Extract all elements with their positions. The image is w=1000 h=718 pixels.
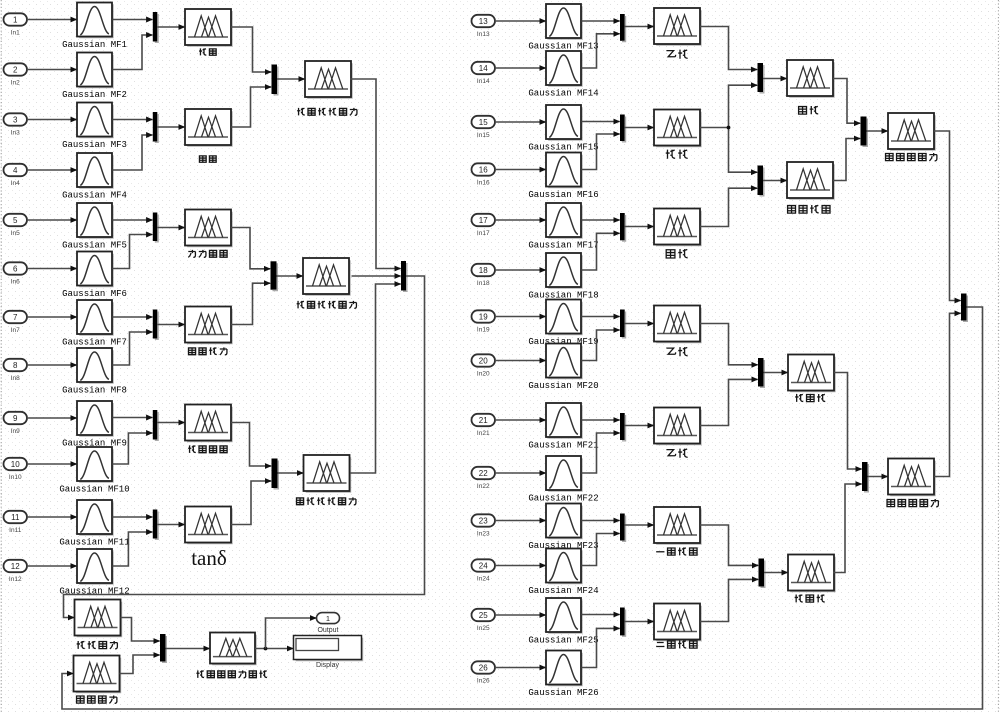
wire mux to fuzzy block 甲烷 <box>625 226 654 228</box>
label 水分含量 <box>188 250 195 257</box>
mux for pair 25/26 <box>620 608 625 636</box>
wire In21 to Gaussian MF21 <box>495 419 546 421</box>
svg-text:Gaussian MF11: Gaussian MF11 <box>59 537 129 547</box>
svg-text:10: 10 <box>11 460 20 469</box>
input port In22 <box>472 467 496 479</box>
wire mux to fuzzy block <box>157 26 184 28</box>
wire Gaussian MF17 to mux <box>581 219 619 221</box>
svg-text:25: 25 <box>479 611 488 620</box>
mux fault stresses <box>961 294 967 321</box>
label 界面张力 <box>188 348 195 355</box>
wire mux to 电弧 <box>763 78 787 80</box>
wire mux to fuzzy block 乙烷 <box>625 425 654 427</box>
Gaussian MF10 block <box>79 449 113 482</box>
svg-text:In5: In5 <box>11 230 20 237</box>
fuzzy block 乙烷 <box>656 410 701 445</box>
wire mux to 电气老化应力 <box>278 472 304 474</box>
label 呋喃 <box>199 48 206 55</box>
mux chemical <box>272 65 278 95</box>
wire 甲烷 to pd mux <box>700 188 757 226</box>
input port In7 <box>4 311 28 323</box>
label 过热油 <box>795 394 803 402</box>
wire Gaussian MF19 to mux <box>581 316 619 318</box>
fuzzy block 氢气 <box>656 112 701 147</box>
fuzzy block 过热油 <box>790 357 835 392</box>
wire In6 to Gaussian MF6 <box>27 268 77 270</box>
Gaussian MF8 block <box>79 350 113 383</box>
fuzzy block 一氧化碳 <box>656 509 701 544</box>
wire Gaussian MF6 to mux <box>112 235 152 269</box>
svg-text:In21: In21 <box>477 430 490 437</box>
output port Output <box>317 613 340 624</box>
svg-text:Gaussian MF14: Gaussian MF14 <box>528 88 598 98</box>
wire mux to 化学老化应力 <box>277 78 305 80</box>
wire aging mux to 老化应力 <box>64 276 425 618</box>
wire In2 to Gaussian MF2 <box>27 69 77 71</box>
input port In24 <box>472 559 496 571</box>
svg-text:In23: In23 <box>477 530 490 537</box>
label 一氧化碳 <box>656 551 664 553</box>
svg-text:Gaussian MF3: Gaussian MF3 <box>62 140 127 150</box>
label 甲烷 <box>666 250 675 258</box>
fuzzy block 水分含量 <box>187 212 232 247</box>
svg-text:Gaussian MF1: Gaussian MF1 <box>62 40 127 50</box>
label 电气老化应力 <box>296 498 303 505</box>
fuzzy block 老化应力 <box>77 602 122 637</box>
wire In11 to Gaussian MF11 <box>27 516 77 518</box>
mux partial discharge <box>758 166 764 196</box>
label 乙炔 <box>666 51 675 57</box>
svg-text:1: 1 <box>326 614 330 623</box>
input port In17 <box>472 214 496 226</box>
label 二氧化碳 <box>656 643 664 647</box>
svg-text:Gaussian MF16: Gaussian MF16 <box>528 190 598 200</box>
mux electrical <box>272 459 278 489</box>
svg-text:Gaussian MF26: Gaussian MF26 <box>528 688 598 698</box>
label 介电强度 <box>188 445 196 452</box>
fuzzy block 局部放电 <box>789 164 834 199</box>
wire mux to 局部放电 <box>763 180 787 182</box>
wire mux to fuzzy block <box>157 227 184 229</box>
svg-text:17: 17 <box>479 216 488 225</box>
label 过热纸 <box>795 594 803 602</box>
Gaussian MF16 block <box>548 155 582 188</box>
svg-text:7: 7 <box>13 313 18 322</box>
input port In14 <box>472 62 496 74</box>
wire In22 to Gaussian MF22 <box>495 472 546 474</box>
svg-text:26: 26 <box>479 663 488 672</box>
svg-text:In17: In17 <box>477 230 490 237</box>
svg-text:15: 15 <box>479 118 488 127</box>
wire 电气老化应力 to aging mux <box>350 284 401 473</box>
svg-text:In1: In1 <box>11 29 20 36</box>
wire In15 to Gaussian MF15 <box>495 121 546 123</box>
mux for pair 21/22 <box>620 413 625 440</box>
mux arc <box>758 63 764 92</box>
wire Gaussian MF1 to mux <box>112 19 152 21</box>
input port In21 <box>472 414 496 426</box>
fuzzy block 电气老化应力 <box>306 457 351 492</box>
svg-text:Gaussian MF24: Gaussian MF24 <box>528 586 598 596</box>
mux for pair 15/16 <box>620 115 625 142</box>
wire 乙烷 to oil mux <box>700 379 758 425</box>
svg-text:22: 22 <box>479 469 488 478</box>
Display block <box>296 638 363 661</box>
wire mux to 物理老化应力 <box>277 275 303 277</box>
wire In19 to Gaussian MF19 <box>495 316 546 318</box>
mux for pair 5/6 <box>153 213 158 242</box>
wire Gaussian MF14 to mux <box>581 34 619 68</box>
svg-text:In14: In14 <box>477 78 490 85</box>
Gaussian MF3 block <box>79 105 113 138</box>
wire mux to 过热油 <box>764 372 788 374</box>
wire 界面张力 to phys mux <box>231 283 270 324</box>
svg-text:Output: Output <box>317 627 338 634</box>
svg-text:12: 12 <box>11 562 20 571</box>
svg-text:In12: In12 <box>9 576 22 583</box>
wire mux to fuzzy block <box>157 422 184 424</box>
wire 热故障应力 to fault mux <box>934 131 961 301</box>
svg-text:tanδ: tanδ <box>191 546 227 570</box>
wire mux to fuzzy block <box>157 324 184 326</box>
input port In4 <box>4 164 28 176</box>
junction dot <box>264 647 268 651</box>
wire In23 to Gaussian MF23 <box>495 520 546 522</box>
wire In13 to Gaussian MF13 <box>495 20 546 22</box>
svg-text:In2: In2 <box>11 79 20 86</box>
wire In14 to Gaussian MF14 <box>495 67 546 69</box>
wire 故障应力 to final mux <box>120 655 160 674</box>
wire mux to fuzzy block <box>157 524 184 526</box>
wire Gaussian MF11 to mux <box>112 516 152 518</box>
svg-text:In13: In13 <box>477 31 490 38</box>
Gaussian MF24 block <box>548 551 582 584</box>
svg-text:23: 23 <box>479 516 488 525</box>
wire 物理老化应力 to aging mux <box>352 275 401 277</box>
fuzzy block 甲烷 <box>656 211 701 246</box>
input port In19 <box>472 310 496 322</box>
mux for pair 19/20 <box>620 310 625 338</box>
Gaussian MF1 block <box>79 5 113 38</box>
Gaussian MF9 block <box>79 403 113 436</box>
fuzzy block 物理老化应力 <box>305 260 350 295</box>
svg-text:3: 3 <box>13 115 18 124</box>
fuzzy block 过热纸 <box>790 557 835 592</box>
svg-text:8: 8 <box>13 361 18 370</box>
wire 老化应力 to final mux <box>121 618 160 642</box>
svg-text:Gaussian MF7: Gaussian MF7 <box>62 337 127 347</box>
Gaussian MF7 block <box>79 302 113 335</box>
wire In7 to Gaussian MF7 <box>27 316 77 318</box>
wire In4 to Gaussian MF4 <box>27 169 77 171</box>
wire mux to fuzzy block 乙烯 <box>625 323 654 325</box>
wire Gaussian MF8 to mux <box>112 332 152 365</box>
svg-text:In6: In6 <box>11 278 20 285</box>
svg-text:In3: In3 <box>11 129 20 136</box>
wire mux to fuzzy block 一氧化碳 <box>625 524 654 526</box>
label 热故障应力 <box>886 154 894 161</box>
svg-text:Gaussian MF2: Gaussian MF2 <box>62 90 127 100</box>
mux aging stresses <box>401 261 406 291</box>
wire 变压器应力等级 to Display <box>255 648 293 650</box>
label 物理老化应力 <box>297 301 305 308</box>
wire In1 to Gaussian MF1 <box>27 19 77 21</box>
Gaussian MF26 block <box>548 653 582 686</box>
mux for pair 7/8 <box>153 310 158 339</box>
figure border left <box>0 0 2 713</box>
fuzzy block tan-delta <box>187 509 232 544</box>
wire Gaussian MF23 to mux <box>581 520 619 522</box>
wire Gaussian MF20 to mux <box>581 330 619 361</box>
wire mux to fuzzy block 氢气 <box>625 127 654 129</box>
figure border right <box>997 0 999 713</box>
fuzzy block 化学老化应力 <box>307 63 352 98</box>
mux for pair 23/24 <box>620 514 625 541</box>
svg-text:Gaussian MF13: Gaussian MF13 <box>528 41 598 51</box>
Gaussian MF15 block <box>548 107 582 140</box>
wire mux to fuzzy block <box>157 126 184 128</box>
svg-text:In19: In19 <box>477 326 490 333</box>
wire Gaussian MF5 to mux <box>112 219 152 221</box>
Gaussian MF5 block <box>79 205 113 238</box>
fuzzy block 电弧 <box>789 62 834 97</box>
wire Gaussian MF7 to mux <box>112 316 152 318</box>
svg-text:5: 5 <box>13 216 18 225</box>
wire Gaussian MF9 to mux <box>112 417 152 419</box>
label 局部放电 <box>788 206 796 214</box>
label 老化应力 <box>77 641 85 649</box>
svg-text:4: 4 <box>13 166 18 175</box>
wire 过热纸 to electric-fault mux <box>834 484 862 573</box>
wire 二氧化碳 to paper mux <box>700 579 758 621</box>
Gaussian MF11 block <box>79 502 113 535</box>
Gaussian MF12 block <box>79 551 113 584</box>
svg-text:In4: In4 <box>11 180 20 187</box>
Gaussian MF13 block <box>548 6 582 39</box>
Gaussian MF17 block <box>548 205 582 238</box>
wire 局部放电 to thermal mux <box>833 139 860 181</box>
input port In23 <box>472 514 496 526</box>
fuzzy block 故障应力 <box>76 658 121 693</box>
mux for pair 1/2 <box>153 12 158 42</box>
wire In3 to Gaussian MF3 <box>27 119 77 121</box>
wire 电故障应力 to fault mux <box>934 313 961 476</box>
mux physical <box>271 261 277 289</box>
input port In13 <box>472 15 496 27</box>
Gaussian MF20 block <box>548 346 582 379</box>
wire Gaussian MF22 to mux <box>581 433 619 473</box>
wire Gaussian MF3 to mux <box>112 119 152 121</box>
mux for pair 13/14 <box>620 14 625 41</box>
svg-text:In25: In25 <box>477 625 490 632</box>
Gaussian MF22 block <box>548 458 582 491</box>
mux for pair 3/4 <box>153 112 158 142</box>
label 电故障应力 <box>887 500 895 507</box>
input port In26 <box>472 661 496 673</box>
fuzzy block 电故障应力 <box>890 461 935 496</box>
svg-text:9: 9 <box>13 414 18 423</box>
svg-text:Gaussian MF20: Gaussian MF20 <box>528 381 598 391</box>
input port In16 <box>472 163 496 175</box>
svg-text:In20: In20 <box>477 370 490 377</box>
input port In18 <box>472 264 496 276</box>
junction dot 氢气 <box>727 126 731 130</box>
mux electric fault <box>862 462 868 491</box>
Gaussian MF21 block <box>548 405 582 438</box>
Gaussian MF19 block <box>548 302 582 335</box>
wire tan-delta to elec mux <box>231 481 271 525</box>
input port In1 <box>4 13 28 25</box>
svg-text:1: 1 <box>13 15 18 24</box>
wire mux to fuzzy block 二氧化碳 <box>625 621 654 623</box>
label 电弧 <box>799 107 807 115</box>
wire Gaussian MF2 to mux <box>112 35 152 70</box>
input port In5 <box>4 214 28 226</box>
svg-text:13: 13 <box>479 17 488 26</box>
wire 水分含量 to phys mux <box>231 228 270 269</box>
input port In3 <box>4 113 28 125</box>
wire Gaussian MF10 to mux <box>112 433 152 464</box>
input port In25 <box>472 609 496 621</box>
wire In8 to Gaussian MF8 <box>27 364 77 366</box>
svg-text:Gaussian MF22: Gaussian MF22 <box>528 493 598 503</box>
label 故障应力 <box>77 696 85 703</box>
Gaussian MF4 block <box>79 155 113 188</box>
input port In20 <box>472 354 496 366</box>
svg-text:18: 18 <box>479 266 488 275</box>
input port In9 <box>4 412 28 424</box>
wire In17 to Gaussian MF17 <box>495 219 546 221</box>
wire In18 to Gaussian MF18 <box>495 269 546 271</box>
Gaussian MF6 block <box>79 254 113 287</box>
wire Gaussian MF26 to mux <box>581 628 619 667</box>
wire 氢气 to arc mux and pd mux <box>700 85 757 127</box>
Gaussian MF23 block <box>548 506 582 539</box>
wire mux to 过热纸 <box>764 572 788 574</box>
wire 乙烯 to oil mux <box>700 324 758 365</box>
svg-text:Gaussian MF25: Gaussian MF25 <box>528 635 598 645</box>
fuzzy block 乙烯 <box>656 308 701 343</box>
mux final <box>160 634 166 662</box>
svg-text:Gaussian MF15: Gaussian MF15 <box>528 142 598 152</box>
svg-text:Gaussian MF8: Gaussian MF8 <box>62 385 127 395</box>
input port In12 <box>4 560 28 572</box>
wire 电弧 to thermal mux <box>833 79 860 124</box>
wire In24 to Gaussian MF24 <box>495 565 546 567</box>
svg-text:Gaussian MF21: Gaussian MF21 <box>528 440 598 450</box>
wire mux to 热故障应力 <box>867 130 888 132</box>
label 变压器应力等级 <box>196 670 204 677</box>
wire In9 to Gaussian MF9 <box>27 417 77 419</box>
svg-text:19: 19 <box>479 312 488 321</box>
wire 一氧化碳 to paper mux <box>700 525 758 565</box>
wire 乙炔 to arc mux <box>700 27 757 70</box>
wire Gaussian MF25 to mux <box>581 614 619 616</box>
input port In8 <box>4 359 28 371</box>
wire mux to 电故障应力 <box>868 476 888 478</box>
svg-text:14: 14 <box>479 64 488 73</box>
wire Gaussian MF12 to mux <box>112 532 152 566</box>
wire Gaussian MF15 to mux <box>581 121 619 123</box>
input port In10 <box>4 458 28 470</box>
Gaussian MF2 block <box>79 55 113 88</box>
svg-text:In24: In24 <box>477 575 490 582</box>
wire junction to Output port <box>266 618 317 649</box>
svg-text:Gaussian MF4: Gaussian MF4 <box>62 190 127 200</box>
mux overheated paper <box>759 559 765 587</box>
wire In16 to Gaussian MF16 <box>495 169 546 171</box>
wire Gaussian MF18 to mux <box>581 233 619 270</box>
mux for pair 11/12 <box>153 510 158 539</box>
svg-text:In15: In15 <box>477 132 490 139</box>
fuzzy block 酸度 <box>187 111 232 146</box>
mux overheated oil <box>758 358 764 387</box>
wire fault mux to 故障应力 <box>62 307 983 709</box>
svg-text:2: 2 <box>13 65 18 74</box>
label 乙烯 <box>666 348 675 354</box>
fuzzy block 乙炔 <box>656 10 701 45</box>
svg-text:24: 24 <box>479 561 488 570</box>
label 乙烷 <box>666 450 675 456</box>
svg-text:16: 16 <box>479 165 488 174</box>
fuzzy block 介电强度 <box>187 407 232 442</box>
svg-text:20: 20 <box>479 356 488 365</box>
svg-text:Gaussian MF17: Gaussian MF17 <box>528 240 598 250</box>
mux for pair 17/18 <box>620 213 625 240</box>
fuzzy block 二氧化碳 <box>656 606 701 641</box>
svg-text:In7: In7 <box>11 327 20 334</box>
svg-text:21: 21 <box>479 416 488 425</box>
svg-text:In11: In11 <box>9 527 22 534</box>
label 化学老化应力 <box>297 108 305 115</box>
wire Gaussian MF13 to mux <box>581 20 619 22</box>
svg-text:Display: Display <box>316 662 339 669</box>
wire In12 to Gaussian MF12 <box>27 565 77 567</box>
mux for pair 9/10 <box>153 410 158 440</box>
Gaussian MF14 block <box>548 53 582 86</box>
svg-text:In18: In18 <box>477 280 490 287</box>
input port In15 <box>472 116 496 128</box>
svg-text:Gaussian MF10: Gaussian MF10 <box>59 484 129 494</box>
wire Gaussian MF24 to mux <box>581 534 619 566</box>
svg-text:In10: In10 <box>9 474 22 481</box>
input port In11 <box>4 511 28 523</box>
svg-text:Gaussian MF6: Gaussian MF6 <box>62 289 127 299</box>
svg-text:In9: In9 <box>11 428 20 435</box>
wire mux to 变压器应力等级 <box>166 648 210 650</box>
wire 酸度 to chem mux <box>231 87 271 127</box>
wire Gaussian MF16 to mux <box>581 134 619 170</box>
fuzzy block 界面张力 <box>187 309 232 344</box>
wire 呋喃 to chem mux <box>231 27 271 72</box>
wire In26 to Gaussian MF26 <box>495 667 546 669</box>
wire Gaussian MF21 to mux <box>581 419 619 421</box>
wire 介电强度 to elec mux <box>231 423 271 467</box>
mux thermal fault <box>861 117 867 146</box>
wire Gaussian MF4 to mux <box>112 135 152 170</box>
svg-text:In16: In16 <box>477 179 490 186</box>
svg-text:11: 11 <box>11 513 20 522</box>
fuzzy block 变压器应力等级 <box>212 635 256 665</box>
input port In2 <box>4 63 28 75</box>
wire mux to fuzzy block 乙炔 <box>625 26 654 28</box>
wire In25 to Gaussian MF25 <box>495 614 546 616</box>
svg-text:6: 6 <box>13 264 18 273</box>
wire In10 to Gaussian MF10 <box>27 463 77 465</box>
wire 过热油 to electric-fault mux <box>834 373 862 470</box>
svg-text:In8: In8 <box>11 375 20 382</box>
label 酸度 <box>199 156 206 162</box>
